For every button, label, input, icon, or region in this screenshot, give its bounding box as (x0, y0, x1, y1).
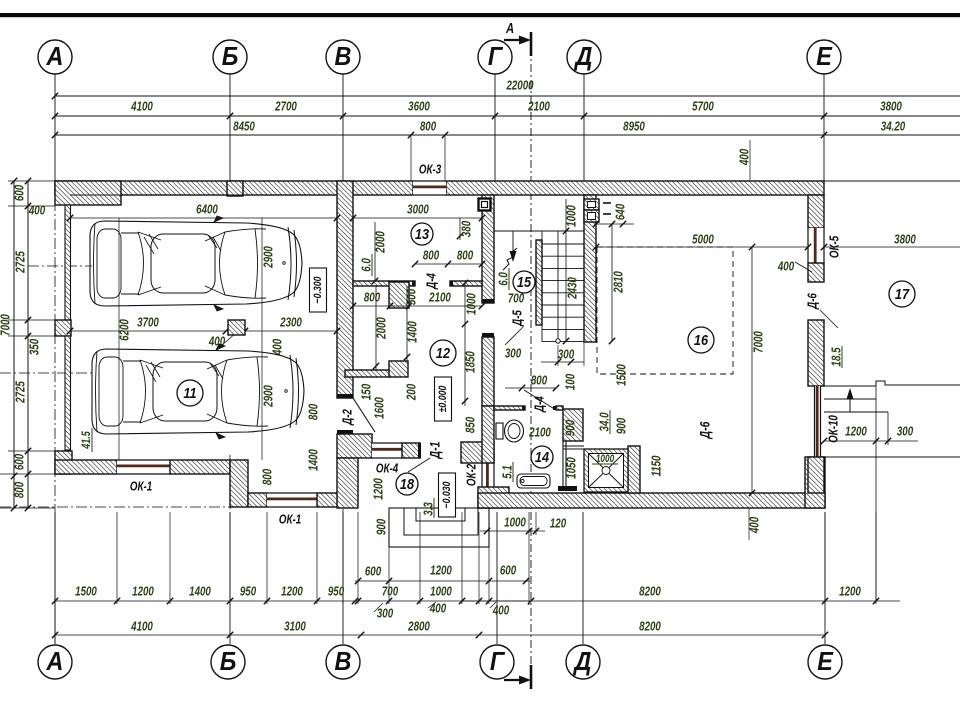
stairs direction line (556, 339, 560, 343)
level -0.300 (310, 268, 327, 312)
window ОК-5 (808, 228, 824, 263)
dims below stairs (505, 387, 556, 389)
svg-text:34.20: 34.20 (881, 120, 906, 134)
stairs bottom dim 300 (541, 361, 584, 363)
window ОК-4 (372, 443, 402, 458)
window ОК-1 left (117, 460, 170, 474)
svg-text:600: 600 (13, 453, 27, 470)
svg-text:120: 120 (550, 517, 567, 531)
room circle 17 (889, 281, 915, 307)
axis circle Е top (807, 40, 841, 74)
dim line 2430 vertical (565, 199, 567, 341)
leader labels 300/400/400 (374, 603, 383, 612)
svg-text:300: 300 (897, 425, 914, 439)
door jamb Д-4b right (553, 406, 556, 410)
door jamb Д-4 right (450, 281, 453, 286)
svg-text:22000: 22000 (506, 79, 534, 93)
door Д-5 jamb top (482, 299, 494, 303)
svg-text:800: 800 (13, 481, 27, 498)
svg-text:400: 400 (28, 204, 46, 218)
svg-text:1150: 1150 (650, 455, 664, 476)
svg-text:200: 200 (405, 383, 419, 401)
svg-text:3600: 3600 (408, 100, 430, 114)
axis line Е vertical (823, 74, 825, 181)
stairwell east wall (584, 195, 596, 342)
east porch lines (824, 385, 876, 387)
svg-text:1600: 1600 (373, 397, 387, 419)
room circle 14 (531, 446, 553, 468)
svg-text:18: 18 (400, 475, 414, 492)
svg-text:900: 900 (375, 518, 389, 535)
section flag Б on stair wall (479, 199, 491, 211)
interior wall room12 south (345, 370, 390, 377)
svg-text:Д-6: Д-6 (806, 293, 820, 310)
stairs top landing edge (541, 231, 543, 342)
car2 axle dash-dot (0, 372, 92, 374)
room13 dim 3000 (353, 217, 482, 219)
svg-text:2900: 2900 (262, 385, 276, 408)
axis circle В top (326, 40, 360, 74)
bottom dim row 2 (55, 634, 825, 636)
svg-text:1000: 1000 (596, 453, 615, 465)
svg-text:2000: 2000 (375, 317, 389, 340)
top border bar (0, 13, 960, 17)
svg-text:Д-6: Д-6 (697, 421, 713, 439)
svg-text:7000: 7000 (0, 314, 13, 336)
bottom-left corner block (55, 451, 72, 474)
svg-text:Д: Д (573, 648, 592, 676)
stairwell west wall lower (482, 337, 494, 406)
room13 dims 800 800 (415, 263, 482, 265)
terrace top edge line (824, 180, 960, 182)
svg-text:1200: 1200 (839, 585, 861, 599)
south wall below ОК-2 (478, 487, 509, 508)
room16 dim 5000 (596, 246, 808, 248)
svg-text:15: 15 (517, 273, 531, 290)
lower south wall east piece (317, 493, 353, 507)
svg-text:16: 16 (694, 331, 708, 348)
partition wall garage/house (337, 181, 353, 398)
dim 6200 vertical (118, 218, 120, 460)
svg-text:600: 600 (365, 565, 382, 579)
svg-text:7000: 7000 (752, 331, 766, 353)
svg-text:1050: 1050 (565, 457, 579, 479)
svg-text:6400: 6400 (196, 203, 218, 217)
vent shaft 1 (584, 199, 599, 210)
window ОК-2 (482, 463, 494, 487)
svg-text:1200: 1200 (372, 478, 386, 500)
axis circle А bottom (38, 645, 72, 679)
garage dim 6400 (70, 217, 337, 219)
leader 400 (222, 333, 236, 345)
main south wall (478, 493, 825, 508)
svg-text:3000: 3000 (407, 203, 429, 217)
svg-text:3700: 3700 (137, 316, 159, 330)
room circle 11 (garage) (177, 380, 203, 406)
room12 vertical dim lines (375, 286, 377, 370)
top-left corner block (55, 181, 121, 205)
svg-text:800: 800 (420, 120, 437, 134)
svg-text:−0.300: −0.300 (312, 276, 324, 304)
svg-text:2800: 2800 (407, 620, 430, 634)
section marker bottom (530, 665, 533, 689)
svg-text:700: 700 (382, 585, 399, 599)
svg-text:300: 300 (377, 607, 394, 621)
room circle 18 (396, 473, 418, 495)
top wall east segment (446, 181, 824, 195)
svg-text:2725: 2725 (14, 251, 28, 274)
svg-text:600: 600 (13, 184, 27, 201)
svg-text:Г: Г (488, 43, 504, 71)
svg-text:1400: 1400 (307, 449, 321, 471)
svg-text:640: 640 (614, 203, 628, 220)
svg-text:ОК-2: ОК-2 (465, 463, 479, 486)
toilet (496, 423, 503, 439)
door jamb Д-4b left (522, 406, 525, 410)
level ±0.000 (435, 377, 452, 421)
bathroom north wall west (494, 406, 525, 410)
svg-text:Е: Е (816, 43, 833, 71)
porch arrow up (849, 390, 851, 412)
shower east wall (628, 446, 640, 493)
garage extension verticals (118, 218, 120, 460)
svg-text:А: А (505, 19, 514, 36)
svg-text:5700: 5700 (692, 100, 714, 114)
svg-text:А: А (46, 648, 64, 676)
axis circle Д top (567, 40, 601, 74)
door jamb Д-4 left (412, 281, 415, 286)
horizontal axis dash-dot bottom left (0, 506, 232, 508)
shower cabin (584, 449, 628, 492)
svg-text:5000: 5000 (692, 233, 714, 247)
axis circle Д bottom (566, 645, 600, 679)
axis circle Б bottom (211, 645, 245, 679)
car 2 (lower parking bay) (92, 344, 304, 439)
bathroom west wall (482, 406, 494, 463)
svg-text:Д-1: Д-1 (427, 441, 443, 459)
svg-text:2100: 2100 (527, 100, 550, 114)
axis line В vertical (342, 74, 344, 181)
partition wall lower block (337, 434, 372, 458)
bathroom north wall east (556, 406, 563, 410)
interior wall room13 south east (450, 281, 482, 286)
svg-text:800: 800 (307, 403, 321, 420)
garage inner top edge (70, 194, 337, 196)
dim 2810 vertical (611, 224, 613, 341)
room circle 16 (688, 327, 714, 353)
svg-text:800: 800 (364, 291, 381, 305)
terrace floor edge (824, 456, 960, 458)
room12 dim row 800/500/2100 (353, 305, 482, 307)
svg-text:400: 400 (738, 148, 752, 166)
svg-text:800: 800 (261, 468, 275, 485)
svg-text:Б: Б (222, 43, 239, 71)
stairs break line (503, 248, 517, 270)
svg-text:8200: 8200 (639, 585, 661, 599)
room circle 12 (430, 340, 456, 366)
svg-text:1200: 1200 (845, 425, 867, 439)
svg-text:6200: 6200 (118, 319, 132, 341)
svg-text:950: 950 (328, 585, 345, 599)
svg-text:3800: 3800 (880, 100, 902, 114)
top dimension line row 3 (55, 134, 960, 136)
svg-text:300: 300 (558, 348, 575, 362)
left garage door lower leaf (65, 336, 71, 450)
axis circle Е bottom (808, 645, 842, 679)
svg-text:14: 14 (535, 448, 549, 465)
svg-text:800: 800 (423, 249, 440, 263)
svg-text:В: В (335, 648, 352, 676)
entrance wall piece (402, 443, 420, 458)
left wall pier (55, 320, 71, 336)
vent shaft 2 (584, 210, 599, 222)
bathroom east block (563, 409, 583, 441)
svg-text:2810: 2810 (612, 271, 626, 294)
svg-text:700: 700 (508, 292, 525, 306)
bathtub (517, 474, 550, 488)
svg-text:3100: 3100 (284, 620, 306, 634)
interior wall room13 south west (353, 281, 415, 286)
svg-text:Д-4: Д-4 (425, 273, 439, 290)
svg-text:850: 850 (464, 416, 478, 433)
svg-text:4100: 4100 (130, 100, 153, 114)
svg-text:3800: 3800 (894, 233, 916, 247)
left garage door upper leaf (65, 205, 71, 320)
svg-text:Д: Д (574, 43, 593, 71)
svg-text:ОК-3: ОК-3 (419, 163, 442, 177)
room16 dim 7000 vertical (751, 247, 753, 493)
pier at Д-4 junction (389, 282, 409, 308)
svg-text:Д-5: Д-5 (511, 310, 525, 327)
svg-text:ОК-4: ОК-4 (376, 462, 399, 476)
axis circle Г bottom (480, 645, 514, 679)
svg-text:−0.030: −0.030 (441, 481, 453, 509)
svg-text:11: 11 (183, 384, 196, 401)
south-east corner block (805, 457, 825, 508)
top wall west segment (55, 181, 413, 195)
svg-text:Е: Е (817, 648, 834, 676)
svg-text:1000: 1000 (565, 205, 579, 227)
svg-text:2300: 2300 (279, 316, 302, 330)
section marker top (530, 32, 533, 56)
pier room12/18 (389, 361, 408, 377)
leader 400 window (795, 262, 812, 272)
entry dim row 600/1200/600 (355, 580, 530, 582)
svg-text:В: В (335, 43, 352, 71)
east wall piece 1 (808, 195, 824, 228)
garage bottom wall east (170, 460, 230, 474)
left vertical dim line x=28 (27, 181, 29, 508)
entrance corner block (461, 442, 494, 463)
window ОК-10 (815, 386, 821, 457)
vestibule west wall (337, 458, 358, 508)
svg-text:13: 13 (415, 225, 429, 242)
dim 2900 car1 (261, 218, 263, 460)
window ОК-3 (413, 181, 446, 195)
svg-text:12: 12 (436, 344, 450, 361)
room circle 13 (411, 223, 433, 245)
svg-text:150: 150 (360, 383, 374, 400)
svg-text:300: 300 (505, 347, 522, 361)
svg-text:900: 900 (615, 417, 629, 434)
room16 dashed rect (upper floor outline) (597, 247, 733, 374)
axis line Б vertical (229, 74, 231, 181)
svg-text:Д-2: Д-2 (341, 409, 355, 426)
section cut line А-А (530, 32, 532, 688)
extension lines row3 x=411,445 (410, 135, 412, 181)
svg-text:1000: 1000 (465, 293, 479, 315)
svg-text:8450: 8450 (233, 120, 255, 134)
dim line 3800 in terrace (824, 246, 960, 248)
door Д-5 jamb bottom (482, 333, 494, 337)
svg-text:2430: 2430 (566, 277, 580, 300)
svg-text:2700: 2700 (274, 100, 297, 114)
svg-text:400: 400 (492, 604, 510, 618)
level -0.030 (439, 473, 456, 517)
svg-text:1400: 1400 (189, 585, 211, 599)
svg-text:17: 17 (895, 285, 910, 302)
top dimension line row 1 (22000) (55, 95, 960, 97)
svg-text:1500: 1500 (615, 364, 629, 386)
svg-text:900: 900 (564, 419, 578, 436)
porch steps (389, 508, 489, 547)
axis line Г vertical (494, 74, 496, 181)
svg-text:950: 950 (240, 585, 257, 599)
east wall piece 4 (808, 457, 824, 493)
garage dim row 3700/400/2300 (70, 330, 337, 332)
door jamb Д-2 bottom (337, 430, 353, 434)
svg-text:1500: 1500 (75, 585, 97, 599)
svg-text:Г: Г (490, 648, 506, 676)
svg-text:А: А (46, 43, 64, 71)
bottom dim row 1 left (55, 600, 355, 602)
svg-text:2100: 2100 (428, 291, 451, 305)
svg-text:ОК-10: ОК-10 (827, 415, 841, 443)
car1 axle dash-dot (28, 265, 92, 267)
svg-text:Д-4: Д-4 (533, 396, 547, 413)
car 1 (upper parking bay) (90, 216, 302, 311)
svg-text:1400: 1400 (406, 321, 420, 343)
vent dashes (603, 202, 611, 204)
east wall piece 2 (808, 263, 824, 282)
garage pier center (228, 320, 245, 335)
axis circle Г top (478, 40, 512, 74)
stairwell west wall upper (482, 195, 494, 303)
axis circle Б top (213, 40, 247, 74)
svg-text:600: 600 (500, 564, 517, 578)
left extension ticks horizontals (8, 180, 55, 182)
bottom dim row 8200/1200 (462, 600, 900, 602)
svg-text:2900: 2900 (262, 246, 276, 269)
bottom extension lines (54, 512, 56, 604)
window ОК-1 right (267, 493, 317, 507)
garage bottom wall west (55, 460, 117, 474)
svg-text:8200: 8200 (639, 620, 661, 634)
svg-text:1200: 1200 (281, 585, 303, 599)
axis line А vertical (54, 74, 56, 181)
svg-text:400: 400 (777, 260, 795, 274)
dim 400 top right (749, 140, 751, 181)
room circle 15 (513, 271, 535, 293)
svg-text:800: 800 (457, 249, 474, 263)
garage bottom wall step (230, 460, 248, 507)
svg-text:2000: 2000 (374, 231, 388, 254)
svg-text:1200: 1200 (132, 585, 154, 599)
svg-text:350: 350 (28, 338, 42, 355)
small block below shower west (558, 486, 577, 491)
svg-text:1850: 1850 (464, 351, 478, 373)
svg-text:100: 100 (564, 373, 578, 390)
svg-text:ОК-1: ОК-1 (130, 480, 152, 494)
svg-text:400: 400 (748, 516, 762, 534)
dim 1000/120 below bathroom (480, 530, 545, 532)
room13 dim verticals (374, 222, 376, 281)
door Д-2 leaf line (353, 398, 375, 432)
door jamb Д-2 top (337, 394, 353, 398)
svg-text:400: 400 (429, 602, 447, 616)
left vertical dim line x=14 (7000) (13, 181, 15, 508)
porch dim 1200/300 (824, 440, 918, 442)
lower south wall west piece (248, 493, 267, 507)
svg-text:2725: 2725 (14, 381, 28, 404)
svg-text:380: 380 (460, 220, 474, 237)
svg-text:1000: 1000 (504, 516, 526, 530)
svg-text:4100: 4100 (130, 620, 153, 634)
svg-text:ОК-1: ОК-1 (279, 513, 301, 527)
svg-text:ОК-5: ОК-5 (828, 235, 842, 258)
stairs stringer (536, 240, 542, 325)
svg-text:Б: Б (220, 648, 237, 676)
axis circle В bottom (326, 645, 360, 679)
svg-text:±0.000: ±0.000 (437, 385, 449, 412)
axis circle А top (38, 40, 72, 74)
east wall piece 3 (808, 320, 824, 386)
entry dim row 700/1000 (355, 600, 531, 602)
svg-text:8950: 8950 (623, 120, 645, 134)
shower north thin wall (563, 445, 584, 447)
svg-text:2100: 2100 (528, 426, 551, 440)
svg-text:800: 800 (531, 374, 548, 388)
pilaster at axis Б (227, 181, 243, 196)
top dimension line row 2 (55, 115, 960, 117)
svg-text:1200: 1200 (430, 564, 452, 578)
shower west thin wall (562, 441, 564, 490)
axis line Д vertical (583, 74, 585, 181)
door jamb Д-1 left (418, 443, 421, 458)
stair steps (542, 243, 584, 245)
svg-text:1000: 1000 (430, 585, 452, 599)
